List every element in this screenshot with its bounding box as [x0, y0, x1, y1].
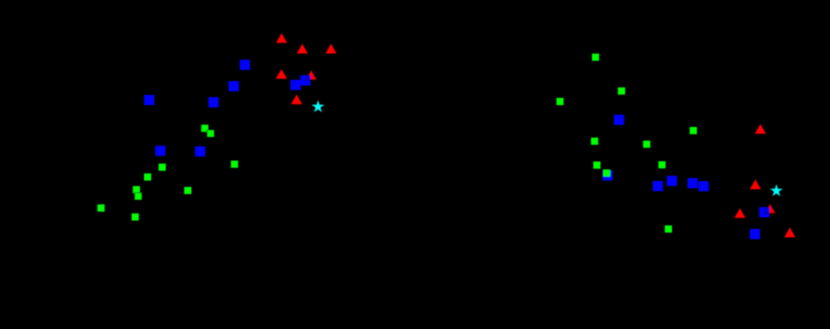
right plot red triangle 5 [784, 228, 795, 238]
left plot red triangle 2 [297, 44, 308, 54]
left plot red triangle 3 [325, 44, 336, 54]
right plot green square 1 [592, 54, 599, 61]
right plot green square 9 [603, 169, 610, 176]
left plot green square 3 [159, 164, 166, 171]
left plot green square 2 [207, 130, 214, 137]
left plot red triangle 5 [306, 70, 317, 80]
left plot green square 6 [133, 186, 140, 193]
right plot cyan star [770, 184, 783, 196]
right plot green square 7 [593, 162, 600, 169]
right plot blue square 6 [699, 181, 709, 191]
right plot green square 5 [591, 138, 598, 145]
left plot green square 1 [201, 125, 208, 132]
left plot blue square 1 [144, 95, 154, 105]
left plot green square 4 [231, 161, 238, 168]
left plot blue square 8 [300, 75, 310, 85]
right plot red triangle 2 [750, 180, 761, 190]
right plot red triangle 3 [734, 208, 745, 218]
right plot green square 10 [665, 225, 672, 232]
left plot blue square 4 [208, 97, 218, 107]
right plot blue square 7 [759, 207, 769, 217]
left plot overlapped triangle outline [306, 70, 317, 80]
right plot blue square 8 [750, 229, 760, 239]
left plot blue square 2 [240, 60, 250, 70]
right plot blue square 4 [667, 176, 677, 186]
left plot green square 5 [144, 173, 151, 180]
right plot green square 8 [658, 161, 665, 168]
left plot red triangle 6 [291, 95, 302, 105]
left plot cyan star [312, 100, 325, 112]
left plot blue square 3 [229, 81, 239, 91]
right plot blue square 3 [653, 181, 663, 191]
left plot blue square 5 [155, 146, 165, 156]
left plot blue square 7 [290, 80, 300, 90]
left plot green square 7 [135, 193, 142, 200]
right plot overlapped triangle outline [764, 204, 775, 214]
left plot green square 8 [184, 187, 191, 194]
right plot blue square 5 [687, 178, 697, 188]
left plot red triangle 4 [276, 69, 287, 79]
right plot red triangle 4 [764, 204, 775, 214]
right plot green square 6 [643, 141, 650, 148]
left plot red triangle 1 [276, 33, 287, 43]
left plot green square 10 [132, 213, 139, 220]
left plot green square 9 [97, 204, 104, 211]
right plot red triangle 1 [755, 124, 766, 134]
left plot blue square 6 [195, 146, 205, 156]
right plot green square 3 [556, 98, 563, 105]
right plot green square 2 [618, 87, 625, 94]
right plot blue square 1 [614, 115, 624, 125]
right plot green square 4 [690, 127, 697, 134]
right plot blue square 2 [603, 170, 613, 180]
